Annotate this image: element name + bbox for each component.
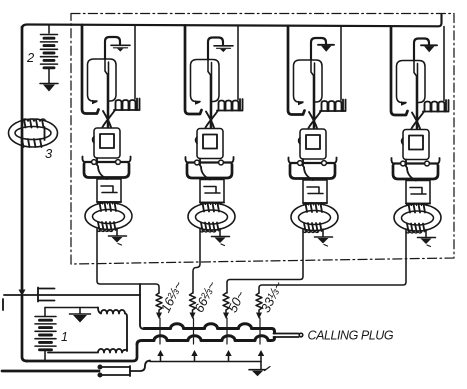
ground: strip earth: [249, 362, 270, 377]
coil: unit 3 secondary turns: [303, 223, 322, 233]
wire: unit 1 coil riser: [134, 25, 136, 99]
relay: unit 4 pivot bump: [402, 138, 404, 144]
svg-text:66⅔~: 66⅔~: [191, 278, 219, 315]
wire: R1 drop to strip: [159, 318, 161, 344]
ground: battery 1 earth tap: [70, 308, 91, 323]
jack: answering jack springs: [38, 288, 55, 302]
coil: unit 2 interrupter magnet: [217, 99, 243, 111]
wire: unit 3 output drop: [227, 229, 303, 293]
wire: unit 1 crossover: [103, 110, 116, 127]
wire: calling cord conductor: [2, 370, 99, 373]
svg-text:CALLING PLUG: CALLING PLUG: [308, 329, 394, 343]
coil: unit 1 secondary turns: [97, 222, 116, 232]
unit 3 (ringing machine selector): [288, 26, 346, 246]
contact: unit 1 brush on segment (with bars): [111, 45, 130, 51]
coil: unit 1 interrupter magnet: [114, 99, 140, 111]
coil: unit 3 primary turns: [304, 203, 324, 212]
wire: unit 2 crossover: [206, 111, 219, 128]
wire: unit 4 brush hook: [414, 39, 429, 61]
transformer: unit 4 vibrator box: [406, 181, 430, 204]
battery 2 feed stub: [48, 25, 50, 33]
wire: unit 1 case lead: [97, 158, 107, 179]
transformer: unit 1 ring core: [85, 203, 132, 230]
wire: unit 4 envelope left conductor: [391, 27, 408, 116]
wire: answering jack conductor: [4, 294, 140, 296]
wire: unit 1 output drop: [97, 229, 159, 293]
jack: unit 1 spring set: [82, 157, 130, 178]
wire: unit 4 armature pair: [414, 61, 418, 129]
svg-text:1: 1: [61, 330, 68, 344]
wire: unit 4 coil riser: [443, 27, 445, 101]
wire: R3 drop to strip: [226, 318, 228, 344]
wire: frame edge stub: [2, 299, 4, 310]
unit 4 (ringing machine selector): [391, 27, 449, 247]
jack: calling cord springs: [98, 365, 130, 376]
contact: unit 3 back stop: [298, 101, 304, 106]
transformer: unit 3 vibrator box: [303, 180, 327, 203]
bus: common supply bar: [22, 15, 442, 30]
relay: unit 3 armature frame: [294, 60, 323, 102]
svg-text:33⅓~: 33⅓~: [258, 278, 286, 315]
coil: unit 1 primary turns: [98, 202, 118, 211]
resistor R2 (66 2/3~): [190, 293, 196, 319]
coil: upper ring lead: [98, 308, 127, 352]
coil: unit 4 interrupter magnet: [423, 100, 449, 112]
unit 2 (ringing machine selector): [185, 26, 243, 246]
relay: unit 2 case: [197, 129, 223, 159]
relay: unit 1 case: [94, 128, 120, 158]
unit 1 (ringing machine selector): [82, 25, 140, 245]
wire: unit 4 output drop: [259, 229, 406, 293]
frame: machine boundary (dash-dot): [71, 14, 454, 265]
relay: unit 3 case: [300, 129, 326, 159]
wire: unit 3 armature pair: [311, 60, 315, 128]
jack: unit 3 spring set: [288, 158, 336, 179]
wire: battery 1 top feed: [45, 307, 98, 309]
ground: unit 2 earth: [212, 229, 230, 246]
wire: unit 4 crossover: [412, 112, 425, 129]
contact: unit 4 back stop: [401, 101, 407, 106]
wire: unit 3 envelope left conductor: [288, 26, 305, 115]
wire: unit 2 armature pair: [208, 60, 212, 128]
contact: unit 2 brush on segment (with bars): [214, 46, 233, 52]
wire: cord to bracket: [130, 361, 150, 372]
transformer: unit 1 vibrator box: [97, 179, 121, 202]
svg-text:3: 3: [45, 146, 53, 161]
plug: calling plug: [274, 333, 303, 337]
wire: trunk lower conductor: [22, 296, 27, 361]
contact: unit 2 back stop: [195, 100, 201, 105]
battery 2: [41, 35, 58, 68]
contact: unit 3 brush on segment: [318, 45, 334, 52]
wire: unit 2 case lead: [200, 159, 210, 180]
contact: trunk plug arrow: [19, 290, 26, 297]
transformer: unit 4 ring core: [394, 204, 441, 231]
ground: unit 4 earth: [418, 230, 436, 247]
contact: unit 1 back stop: [92, 100, 98, 105]
ground: battery 2 earth: [40, 84, 58, 92]
transformer: unit 2 ring core: [188, 203, 235, 230]
wire: unit 2 output drop: [193, 229, 200, 293]
ground: unit 1 earth: [109, 228, 127, 245]
inductor: line coil 3: [9, 119, 58, 147]
ground: unit 3 earth: [315, 229, 333, 246]
relay: unit 1 armature frame: [88, 59, 117, 101]
relay: unit 1 core: [100, 134, 114, 148]
wire: unit 2 brush hook: [208, 38, 223, 60]
coil: unit 4 primary turns: [407, 203, 427, 212]
bus: strip upper bar: [144, 324, 275, 333]
relay: unit 2 pivot bump: [196, 137, 198, 143]
wire: unit 4 case lead: [406, 160, 416, 181]
bracket: resistor common return: [150, 350, 264, 362]
relay: unit 4 case: [403, 130, 429, 160]
svg-text:2: 2: [26, 50, 35, 65]
resistor R4 (33 1/3~): [256, 293, 262, 319]
coil: unit 2 primary turns: [201, 202, 221, 211]
relay: unit 4 core: [409, 136, 423, 150]
wire: battery 2 earth lead: [48, 68, 50, 83]
svg-text:50~: 50~: [225, 288, 248, 315]
transformer: unit 3 ring core: [291, 204, 338, 231]
relay: unit 4 armature frame: [397, 61, 426, 103]
bus: strip lower bar: [137, 336, 275, 345]
transformer: unit 2 vibrator box: [200, 180, 224, 203]
relay: unit 3 pivot bump: [299, 138, 301, 144]
wire: unit 1 brush hook: [105, 37, 120, 59]
relay: unit 2 core: [203, 135, 217, 149]
wire: R2 drop to strip: [193, 318, 195, 344]
jack: unit 4 spring set: [391, 158, 439, 179]
wire: R4 drop to strip: [259, 318, 261, 344]
wire: battery loop bottom: [26, 346, 137, 361]
wire: unit 2 envelope left conductor: [185, 26, 202, 115]
resistor R3 (50~): [223, 293, 229, 319]
wire: unit 1 armature pair: [105, 59, 109, 127]
coil: lower ring lead: [48, 349, 127, 353]
wire: strip feed riser: [140, 284, 144, 329]
coil: unit 2 secondary turns: [200, 223, 219, 233]
relay: unit 3 core: [306, 135, 320, 149]
wire: unit 3 brush hook: [311, 38, 326, 60]
relay: unit 1 pivot bump: [93, 137, 95, 143]
jack: unit 2 spring set: [185, 157, 233, 178]
coil: unit 4 secondary turns: [406, 224, 425, 234]
resistor R1 (16 2/3~): [156, 293, 162, 319]
wire: unit 2 coil riser: [237, 26, 239, 100]
battery 1: [35, 308, 56, 362]
wire: unit 3 crossover: [309, 111, 322, 128]
contact: unit 4 brush on segment: [421, 45, 437, 52]
wire: unit 1 envelope left conductor: [82, 25, 99, 114]
svg-text:16⅔~: 16⅔~: [158, 278, 186, 315]
coil: unit 3 interrupter magnet: [320, 100, 346, 112]
wire: left trunk conductor: [21, 27, 24, 289]
wire: unit 3 case lead: [303, 159, 313, 180]
wire: unit 3 coil riser: [340, 26, 342, 100]
relay: unit 2 armature frame: [191, 60, 220, 102]
